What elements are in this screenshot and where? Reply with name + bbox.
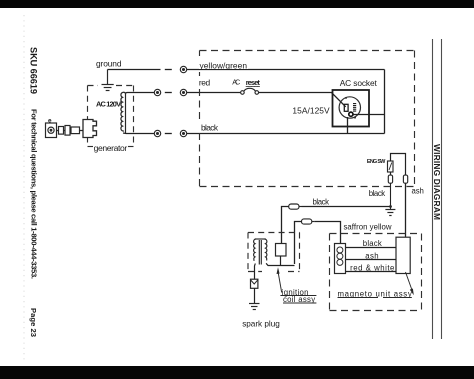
ground symbol spark plug: [249, 304, 260, 310]
scan fold speckle line: [23, 15, 25, 360]
wire socket ground to panel ground: [353, 114, 384, 116]
wire black switch to ground: [390, 183, 392, 209]
control panel dashed box: [200, 51, 415, 187]
svg-text:reset: reset: [246, 78, 261, 87]
generator winding L1: [121, 92, 126, 133]
engine bolt terminal e: [46, 123, 57, 138]
AC socket slot right: [353, 104, 356, 112]
wire black mid horizontal: [302, 206, 391, 208]
magneto winding circles: [337, 247, 343, 265]
connector sleeve 3: [71, 127, 80, 134]
bottom black bar: [0, 366, 474, 379]
spark plug cap: [251, 279, 258, 288]
red wire dash segment: [165, 92, 172, 94]
generator dashed box: [88, 86, 134, 147]
wire switch bottom: [390, 172, 392, 175]
AC socket slot left: [344, 104, 348, 111]
svg-text:ground: ground: [96, 59, 122, 69]
ground wire from generator: [108, 69, 161, 71]
magneto dashed box: [330, 234, 422, 311]
svg-text:WIRING DIAGRAM: WIRING DIAGRAM: [432, 144, 442, 220]
svg-text:red: red: [199, 77, 211, 87]
svg-text:magneto unit assy: magneto unit assy: [338, 289, 412, 298]
label black top: [201, 122, 220, 132]
magneto right terminal block: [396, 237, 410, 273]
black wire from winding: [123, 132, 154, 135]
AC socket screw dots: [345, 97, 347, 99]
wire magneto black: [346, 247, 397, 249]
leader arrow magneto label: [406, 272, 413, 292]
svg-text:ash: ash: [365, 251, 378, 260]
label yellow/green: [199, 60, 248, 70]
black wire right segment: [187, 133, 385, 135]
circuit breaker AC reset: [241, 88, 259, 94]
AC socket box U1: [333, 90, 370, 127]
ignition coil dashed box: [248, 233, 300, 272]
wire socket neutral drop: [347, 117, 349, 134]
wire to spark plug: [254, 264, 257, 280]
bullet connector black wire: [289, 204, 302, 209]
wire plug chain link: [57, 130, 84, 132]
connector circle red 2: [180, 89, 186, 95]
svg-text:AC socket: AC socket: [340, 78, 378, 88]
wire saffron to magneto: [314, 222, 340, 244]
wire ash down to magneto: [405, 183, 407, 237]
ground symbol eng sw: [385, 210, 395, 216]
svg-text:Page 23: Page 23: [29, 308, 38, 337]
svg-text:black: black: [363, 239, 382, 248]
connector pin ash: [403, 175, 407, 183]
svg-text:AC: AC: [232, 77, 240, 86]
connector circle ground: [180, 66, 186, 72]
svg-text:e: e: [48, 118, 52, 125]
connector sleeve 1: [59, 127, 64, 135]
AC socket ground pin ring: [349, 112, 353, 116]
red wire breaker to socket: [259, 93, 346, 107]
svg-text:spark plug: spark plug: [242, 319, 280, 328]
ground wire dash segment: [165, 69, 172, 71]
svg-text:black: black: [201, 122, 219, 132]
connector sleeve 2: [65, 126, 70, 136]
wire magneto ash: [346, 259, 397, 261]
wire ignition bottom rail: [266, 256, 294, 266]
wire switch top loop: [391, 154, 406, 176]
svg-text:ash: ash: [412, 187, 424, 196]
connector circle black 2: [180, 130, 186, 136]
black wire dash segment: [165, 133, 172, 135]
red wire from winding: [126, 92, 155, 95]
wire black mid to ignition: [282, 207, 289, 244]
magneto coil block: [335, 244, 346, 274]
ignition module box: [276, 244, 287, 257]
red wire to breaker: [187, 92, 241, 94]
AC socket face circle: [339, 97, 360, 118]
wire saffron to ignition: [295, 222, 302, 265]
connector circle red 1: [154, 89, 160, 95]
svg-text:saffron yellow: saffron yellow: [344, 222, 392, 231]
svg-text:black: black: [313, 197, 330, 206]
engine connector block: [83, 120, 97, 138]
wire yellow/green drop: [384, 70, 386, 134]
right title bar lines: [433, 39, 442, 339]
engine switch SW1: [388, 161, 394, 172]
svg-text:yellow/green: yellow/green: [200, 60, 248, 70]
connector pin black: [388, 175, 392, 183]
svg-text:black: black: [369, 189, 386, 198]
svg-text:generator: generator: [94, 143, 128, 153]
svg-text:SKU 66619: SKU 66619: [29, 47, 39, 94]
svg-text:For technical questions, pleas: For technical questions, please call 1-8…: [30, 109, 39, 279]
label red: [199, 77, 212, 87]
svg-text:ENG SW: ENG SW: [367, 159, 386, 165]
top black bar: [0, 0, 474, 8]
svg-text:15A/125V: 15A/125V: [292, 106, 330, 116]
connector circle black 1: [154, 130, 160, 136]
ignition transformer T1: [254, 239, 267, 265]
bullet connector saffron wire: [302, 219, 315, 224]
wire spark plug to ground: [254, 288, 256, 303]
wire magneto red and white: [346, 271, 397, 273]
junction dot black mid: [389, 205, 392, 208]
ground wire right segment: [187, 69, 385, 71]
generator ground symbol: [102, 70, 114, 91]
svg-text:AC 120V: AC 120V: [96, 99, 121, 108]
svg-text:red & white: red & white: [350, 264, 394, 273]
leader arrow ignition label: [278, 272, 282, 293]
